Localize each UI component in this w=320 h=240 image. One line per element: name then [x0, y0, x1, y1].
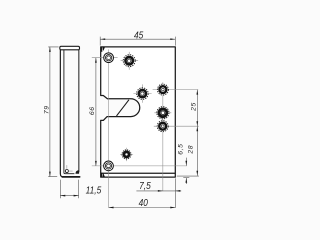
latch diagonal in slot [117, 100, 129, 116]
hole 3 (threaded, middle) [137, 88, 149, 100]
side view right wall [78, 50, 80, 172]
dim 79 ext lines [48, 47, 58, 177]
dim 45 line [100, 38, 175, 40]
dim 11,5 arrows [60, 195, 78, 197]
hole A (threaded, right column top) [157, 84, 168, 95]
front plate outline with latch notch [101, 47, 176, 177]
hole 1 (screw hole, top-left) [104, 53, 114, 63]
hole 3 crosshair [133, 84, 151, 102]
svg-text:79: 79 [44, 105, 51, 114]
side view small hole centerline tick [66, 165, 68, 169]
plate right edge ext line for 7,5/40 [174, 178, 176, 208]
hole B (threaded, right column middle) [157, 107, 169, 119]
svg-text:28: 28 [188, 145, 195, 155]
dim 40 arrows [109, 207, 176, 209]
dim 7,5 line [136, 190, 181, 192]
dim 11,5 line [60, 195, 78, 197]
side view left wall inner line [64, 50, 75, 174]
svg-text:11,5: 11,5 [86, 185, 102, 196]
dim 40 line [109, 207, 176, 209]
dim 11,5 ext lines [60, 180, 78, 199]
side view left wall outer + bottom flange L [60, 50, 79, 177]
hole 2 crosshair [121, 52, 139, 70]
dim 6,5 upper segment with down arrow [185, 158, 187, 166]
svg-text:45: 45 [134, 30, 144, 41]
svg-text:7,5: 7,5 [139, 180, 151, 191]
dim 79 line [49, 47, 51, 177]
dim 28 ext line bottom [177, 175, 199, 177]
side view top cap [60, 46, 80, 50]
hole C horizontal centerline / ext for 25-28 [154, 125, 199, 127]
dim 6,5 lower segment with up arrow [185, 178, 187, 184]
dim 66 line [95, 58, 97, 166]
dim 79 arrows [49, 47, 51, 177]
corner tab top-left [101, 48, 102, 52]
dim 28 arrows [196, 126, 198, 176]
svg-text:40: 40 [139, 197, 149, 208]
side view small hole circle [65, 170, 68, 173]
hole 8 horizontal centerline / ext for 66 and 6,5 [92, 165, 187, 167]
dim 45 ext lines [100, 37, 175, 46]
left hole column centerline [108, 49, 110, 207]
right hole column centerline [162, 82, 164, 191]
svg-text:6,5: 6,5 [178, 143, 185, 154]
front plate bottom edge (fold line) [101, 172, 176, 174]
hole 7 crosshair [120, 148, 133, 161]
dim 45 arrows [100, 38, 175, 40]
hole A horizontal centerline / ext for 25 [153, 89, 199, 91]
side view hook detail bottom right [76, 171, 79, 174]
side view small hole horizontal tick [69, 170, 73, 172]
hole 7 (threaded, bottom area) [122, 150, 131, 159]
corner tab bottom-left [101, 173, 102, 177]
dim 25-28 line [196, 90, 198, 176]
svg-text:25: 25 [190, 102, 197, 112]
hole 2 (threaded, top) [123, 55, 135, 67]
hole C (threaded, right column bottom) [157, 121, 168, 132]
dim 66 arrows [95, 58, 97, 166]
side view bottom flange thick bar [62, 176, 79, 178]
dim 25 arrows [196, 90, 198, 127]
hole 1 horizontal centerline / ext for 66 [92, 57, 118, 59]
dim 7,5 arrows [158, 190, 180, 192]
svg-text:66: 66 [89, 106, 96, 115]
dim 6,5 ext tick [183, 177, 189, 179]
hole B horizontal crosshair [154, 112, 171, 114]
hole 8 (screw hole, bottom-left) [104, 161, 114, 171]
